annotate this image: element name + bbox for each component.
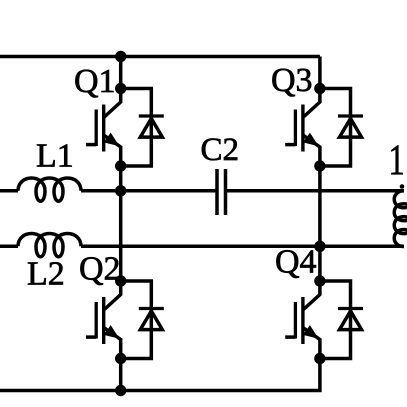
transistor Q4 [285,281,320,359]
transistor Q3 [285,89,320,167]
wire: Q2 antiparallel diode branch [121,281,152,359]
diode D4 (antiparallel diode of Q4) [338,309,363,330]
svg-text:1: 1 [389,137,405,185]
transistor Q1 [86,89,121,167]
top DC rail [0,55,320,59]
capacitor C2 [217,169,226,215]
wire: line A left stub [0,189,18,193]
transistor Q2 [86,281,121,359]
node: Q2 emitter junction [115,353,126,364]
wire: top rail corner down to Q3 collector [318,57,322,90]
node: Q2 collector junction [115,275,126,286]
inductor L2 [18,234,81,257]
node: Q3 emitter junction [314,160,325,171]
node: top rail / Q1 branch junction [115,51,126,62]
svg-text:C2: C2 [201,132,240,168]
node: Q1 emitter junction [115,160,126,171]
wire: top rail to Q1 collector [119,57,123,90]
diode D2 (antiparallel diode of Q2) [139,309,164,330]
node: Q4 collector junction [314,275,325,286]
svg-text:L1: L1 [36,138,74,175]
node B: right bridge midpoint junction dot [314,241,325,252]
transformer polarity dot [400,184,405,189]
wire: Q3 antiparallel diode branch [320,89,351,167]
node: Q3 collector junction [314,83,325,94]
node A: left bridge midpoint junction dot [115,185,126,196]
svg-text:Q4: Q4 [275,244,317,281]
node: bottom rail / Q2 branch junction [115,385,126,396]
wire: C2 right plate to transformer top (crosses right leg, no junction) [226,189,405,193]
svg-text:Q1: Q1 [74,63,116,100]
svg-text:L2: L2 [27,256,65,293]
wire: L1 to node A to C2 left plate [81,189,217,193]
node: Q1 collector junction [115,83,126,94]
wire: Q4 emitter down corner to bottom rail [0,359,320,391]
node: Q4 emitter junction [314,353,325,364]
wire: Q4 antiparallel diode branch [320,281,351,359]
svg-text:Q3: Q3 [271,62,313,99]
wire: Q2 emitter down to bottom rail [119,359,123,391]
diode D3 (antiparallel diode of Q3) [338,116,363,137]
wire: line B left stub [0,245,18,249]
wire: Q1 antiparallel diode branch [121,89,152,167]
svg-text:Q2: Q2 [79,251,121,288]
transformer T1 primary winding (1:n, cropped at right edge) [394,191,407,247]
wire: left leg Q1 emitter to Q2 collector (through node A) [119,166,123,281]
diode D1 (antiparallel diode of Q1) [139,116,164,137]
wire: L2 to node B to transformer bottom (crosses left leg, no junction) [81,245,404,249]
wire: right leg Q3 emitter to Q4 collector (through node B) [318,166,322,281]
inductor L1 [18,178,81,201]
